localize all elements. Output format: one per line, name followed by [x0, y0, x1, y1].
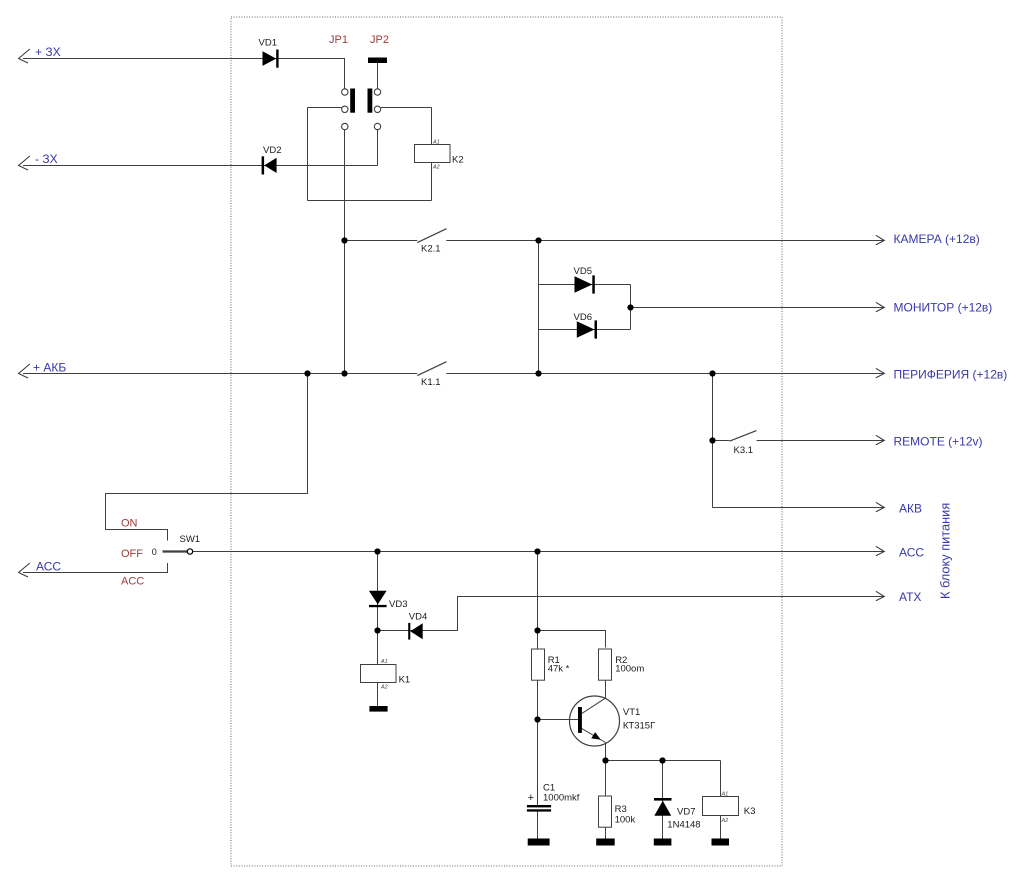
svg-text:ACC: ACC: [121, 576, 144, 588]
svg-text:K1: K1: [399, 675, 411, 686]
svg-text:A2: A2: [432, 164, 440, 170]
svg-text:K2.1: K2.1: [421, 244, 441, 255]
svg-text:K3: K3: [744, 806, 756, 817]
svg-text:K1.1: K1.1: [421, 377, 441, 388]
svg-text:R3: R3: [615, 804, 627, 815]
svg-text:VT1: VT1: [623, 707, 640, 718]
svg-text:ПЕРИФЕРИЯ (+12в): ПЕРИФЕРИЯ (+12в): [894, 367, 1008, 381]
svg-text:ON: ON: [121, 518, 138, 530]
svg-text:+: +: [528, 792, 534, 804]
svg-text:0: 0: [152, 547, 157, 557]
svg-text:K3.1: K3.1: [734, 445, 754, 456]
svg-text:+ АКБ: + АКБ: [33, 360, 66, 374]
svg-text:АСС: АСС: [899, 545, 924, 559]
svg-text:1000mkf: 1000mkf: [543, 793, 580, 804]
svg-text:VD6: VD6: [574, 312, 592, 323]
svg-text:A1: A1: [432, 139, 440, 145]
svg-text:- ЗХ: - ЗХ: [35, 152, 58, 166]
svg-text:VD1: VD1: [259, 38, 277, 49]
svg-text:КТ315Г: КТ315Г: [623, 721, 655, 732]
svg-text:A1: A1: [380, 659, 388, 665]
svg-text:АКВ: АКВ: [899, 501, 922, 515]
svg-text:МОНИТОР (+12в): МОНИТОР (+12в): [894, 301, 993, 315]
svg-text:1N4148: 1N4148: [667, 819, 700, 830]
svg-text:SW1: SW1: [180, 534, 201, 545]
svg-text:VD2: VD2: [263, 145, 281, 156]
svg-text:A2: A2: [380, 685, 388, 691]
svg-text:REMOTE (+12v): REMOTE (+12v): [894, 434, 983, 448]
svg-text:VD5: VD5: [574, 266, 592, 277]
svg-text:JP2: JP2: [370, 34, 389, 46]
svg-text:OFF: OFF: [121, 548, 143, 560]
svg-text:47k *: 47k *: [548, 664, 570, 675]
svg-text:100om: 100om: [615, 664, 644, 675]
svg-text:КАМЕРА (+12в): КАМЕРА (+12в): [894, 232, 980, 246]
svg-text:VD7: VD7: [677, 807, 695, 818]
svg-text:K2: K2: [452, 155, 464, 166]
svg-text:A1: A1: [721, 792, 729, 798]
svg-text:JP1: JP1: [329, 34, 348, 46]
svg-text:A2: A2: [721, 818, 729, 824]
svg-text:+ ЗХ: + ЗХ: [35, 45, 61, 59]
svg-text:VD3: VD3: [389, 599, 407, 610]
svg-text:VD4: VD4: [409, 612, 427, 623]
svg-text:АТХ: АТХ: [899, 590, 921, 604]
svg-text:100k: 100k: [615, 815, 636, 826]
svg-text:АСС: АСС: [36, 559, 61, 573]
svg-text:К блоку питания: К блоку питания: [938, 503, 953, 599]
